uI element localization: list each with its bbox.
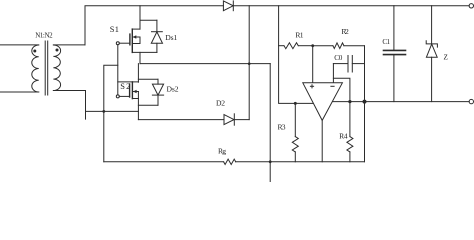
wire minus node bend to output line: [333, 78, 350, 101]
wire opamp output drop: [321, 120, 323, 161]
terminal top output: [469, 4, 473, 8]
transformer secondary phase dot: [56, 49, 59, 52]
svg-text:S1: S1: [110, 25, 119, 34]
svg-text:Z: Z: [444, 53, 448, 61]
capacitor C0: [333, 56, 364, 73]
wire bottom rail right: [236, 161, 365, 163]
svg-text:Ds1: Ds1: [165, 33, 177, 42]
diode D1: [223, 1, 233, 11]
wire top rail right segment: [233, 5, 469, 7]
svg-text:C1: C1: [382, 38, 390, 46]
node junction plus-line x bottom rail: [269, 160, 272, 163]
svg-text:D2: D2: [216, 99, 225, 108]
diode Ds1: [151, 20, 162, 52]
wire S2 drain to S1 source line: [137, 64, 139, 83]
svg-text:Ds2: Ds2: [167, 84, 179, 93]
op-amp U1: [303, 83, 343, 121]
svg-text:R1: R1: [295, 31, 303, 40]
resistor R4: [347, 102, 353, 162]
svg-text:C0: C0: [334, 54, 342, 62]
wire D2 riser to top rail: [248, 6, 250, 120]
wire S1 gate loop vertical: [117, 45, 119, 95]
transistor S2: [118, 82, 139, 99]
wire R2 right drop to output line: [364, 46, 366, 102]
wire S1 drain to top rail: [139, 6, 141, 29]
wire bottom rail left: [104, 161, 224, 163]
wire gate loop jog: [104, 65, 118, 162]
svg-text:N1:N2: N1:N2: [35, 32, 53, 40]
node junction source line x D2 riser: [248, 62, 251, 65]
wire secondary bottom drop with overshoot: [85, 91, 87, 120]
wire secondary bottom to S2 source: [86, 110, 139, 112]
terminal bottom output: [469, 99, 473, 103]
node junction R3 top: [294, 102, 297, 105]
resistor Rg: [224, 159, 236, 164]
wire top rail left segment: [85, 6, 223, 45]
resistor R2: [313, 43, 365, 49]
transformer primary winding N1: [0, 45, 39, 92]
wire C0 left to minus input: [332, 64, 334, 83]
wire D2 cathode to riser: [234, 119, 249, 121]
node junction gate riser x bottom line: [102, 110, 105, 113]
transistor S1 gate terminal: [116, 42, 119, 45]
transformer primary phase dot: [33, 50, 36, 53]
transformer core: [45, 41, 48, 95]
wire S1 source drop: [139, 52, 141, 63]
node junction plus input tap: [311, 44, 314, 47]
resistor R1: [279, 43, 313, 49]
wire output feedback line: [332, 101, 469, 103]
wire S1 drain to Ds1 cathode: [140, 19, 157, 21]
wire S2 source drop: [137, 99, 139, 120]
transistor S1: [119, 29, 140, 52]
wire S1 source line to opamp: [140, 63, 270, 65]
wire feedback drop to bottom rail: [364, 102, 366, 162]
svg-text:R4: R4: [339, 132, 348, 141]
capacitor C1: [384, 6, 406, 102]
svg-text:R2: R2: [341, 27, 349, 36]
wire S2 source to D2: [138, 119, 224, 121]
svg-text:S2: S2: [120, 82, 130, 91]
wire S2 drain to Ds2: [138, 78, 158, 80]
wire opamp plus input stub: [312, 46, 314, 83]
svg-text:Rg: Rg: [218, 146, 226, 155]
svg-text:R3: R3: [278, 122, 286, 131]
node junction R2 drop: [363, 100, 367, 104]
diode Ds2: [152, 79, 163, 105]
wire S1 source bus: [132, 51, 157, 53]
wire plus input riser: [269, 64, 271, 182]
zener diode Z: [426, 6, 437, 102]
node junction R4 top: [348, 100, 351, 103]
diode D2: [224, 114, 234, 125]
wire Ds2 anode to S2 source: [138, 104, 158, 106]
transformer secondary winding N2: [53, 45, 85, 91]
transistor S2 gate terminal: [116, 95, 119, 98]
wire R1 feed riser: [279, 6, 314, 104]
resistor R3: [292, 103, 298, 161]
